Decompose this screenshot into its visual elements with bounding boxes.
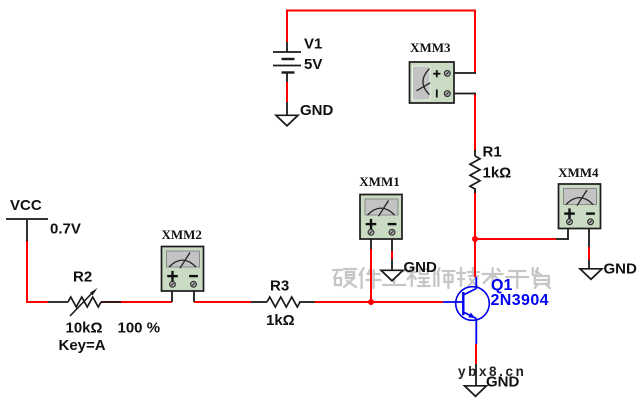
svg-text:0.7V: 0.7V — [50, 221, 81, 238]
svg-text:GND: GND — [300, 102, 334, 119]
svg-text:1kΩ: 1kΩ — [483, 165, 512, 182]
svg-text:XMM1: XMM1 — [359, 174, 399, 189]
svg-text:XMM4: XMM4 — [558, 165, 599, 180]
svg-text:R3: R3 — [270, 278, 289, 295]
svg-text:Key=A: Key=A — [59, 337, 106, 354]
svg-text:GND: GND — [604, 261, 638, 278]
svg-text:100 %: 100 % — [118, 320, 161, 337]
svg-text:VCC: VCC — [10, 197, 42, 214]
svg-text:R2: R2 — [73, 269, 92, 286]
svg-text:XMM3: XMM3 — [410, 40, 451, 55]
svg-text:5V: 5V — [304, 56, 322, 73]
svg-text:R1: R1 — [483, 144, 502, 161]
svg-text:10kΩ: 10kΩ — [66, 320, 103, 337]
svg-text:2N3904: 2N3904 — [491, 292, 549, 309]
svg-text:XMM2: XMM2 — [161, 227, 201, 242]
svg-text:V1: V1 — [304, 36, 322, 53]
svg-text:GND: GND — [486, 374, 520, 391]
svg-text:1kΩ: 1kΩ — [266, 312, 295, 329]
svg-text:GND: GND — [404, 259, 438, 276]
